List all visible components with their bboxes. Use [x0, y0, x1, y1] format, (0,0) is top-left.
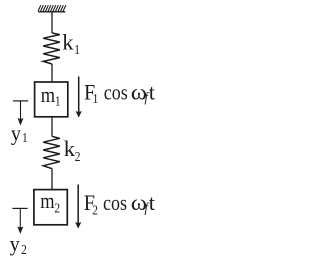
svg-text:m: m	[41, 83, 55, 107]
svg-text:t: t	[149, 190, 156, 215]
force arrow F2	[75, 185, 81, 229]
svg-text:1: 1	[74, 42, 80, 57]
wire: spring k2 to mass m2	[51, 169, 53, 190]
svg-text:1: 1	[55, 94, 61, 109]
fixed support	[38, 5, 66, 12]
svg-text:y: y	[11, 120, 21, 145]
svg-text:1: 1	[22, 130, 28, 145]
displacement arrow y1	[18, 101, 24, 126]
wire: mass m1 to spring k2	[51, 117, 53, 137]
svg-text:1: 1	[93, 91, 99, 106]
wire: support to spring k1	[51, 12, 53, 33]
displacement datum y2	[12, 207, 27, 209]
svg-text:cos: cos	[103, 191, 127, 215]
label F2 cos wf t	[84, 190, 156, 218]
svg-text:cos: cos	[104, 81, 128, 105]
label y1	[11, 120, 28, 145]
svg-text:2: 2	[75, 149, 81, 164]
svg-text:k: k	[62, 29, 74, 54]
svg-text:y: y	[10, 231, 20, 256]
displacement datum y1	[13, 100, 28, 102]
label F1 cos wf t	[84, 80, 156, 107]
mass m1	[35, 82, 68, 117]
svg-text:2: 2	[54, 201, 60, 216]
svg-text:2: 2	[92, 203, 98, 218]
mass m2	[34, 190, 67, 225]
spring k1	[43, 33, 60, 64]
spring k2	[43, 136, 60, 168]
svg-text:m: m	[40, 190, 54, 214]
label m2	[40, 190, 60, 216]
label y2	[10, 231, 27, 257]
wire: spring k1 to mass m1	[51, 64, 53, 82]
displacement arrow y2	[17, 208, 23, 234]
label k1	[62, 29, 80, 57]
label k2	[64, 136, 81, 164]
svg-text:t: t	[149, 80, 156, 105]
svg-text:2: 2	[21, 242, 27, 257]
label m1	[41, 83, 61, 109]
force arrow F1	[76, 77, 82, 118]
